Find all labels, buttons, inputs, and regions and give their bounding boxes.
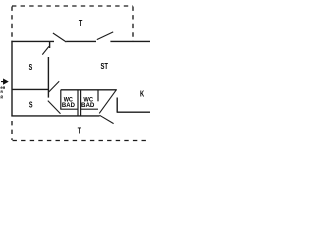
kitchen door leaf xyxy=(99,89,116,113)
entrance arrow xyxy=(1,79,8,83)
left outer wall xyxy=(11,41,13,117)
top wall left segment xyxy=(11,40,54,42)
bottom terrace dashed border xyxy=(13,140,151,142)
svg-text:T: T xyxy=(79,20,83,28)
door leaves xyxy=(42,32,116,124)
S2 door leaf xyxy=(48,101,61,114)
terrace left dashed border xyxy=(11,7,13,42)
corridor north wall over WC boxes xyxy=(61,89,117,91)
svg-text:S: S xyxy=(29,101,33,109)
terrace door leaf right xyxy=(97,32,113,40)
room divider wall S1/S2 xyxy=(12,88,49,90)
svg-text:BAD: BAD xyxy=(81,102,95,109)
svg-text:S: S xyxy=(29,64,33,72)
bottom terrace door leaf xyxy=(100,115,114,123)
terrace door leaf left xyxy=(53,33,66,42)
hall door leaf up xyxy=(49,81,60,92)
svg-text:й: й xyxy=(0,94,3,99)
terrace right dashed border xyxy=(132,7,134,42)
S1 right wall xyxy=(47,57,49,90)
WC bath box 2 xyxy=(80,90,82,116)
solid walls xyxy=(11,41,150,117)
top wall middle segment xyxy=(66,40,96,42)
svg-text:ST: ST xyxy=(101,61,109,71)
bottom wall xyxy=(11,115,99,117)
terrace top dashed border xyxy=(12,6,150,141)
kitchen west wall xyxy=(116,98,118,113)
svg-text:K: K xyxy=(140,91,145,99)
S1 door leaf xyxy=(42,46,49,54)
top wall right segment xyxy=(110,40,150,42)
svg-text:BAD: BAD xyxy=(62,102,76,109)
kitchen south wall xyxy=(117,111,150,113)
WC bath box 1 xyxy=(60,90,98,116)
S2 right wall stub xyxy=(47,89,49,97)
jamb stub below top wall xyxy=(49,41,51,48)
bottom-left dashed wall xyxy=(11,121,13,140)
